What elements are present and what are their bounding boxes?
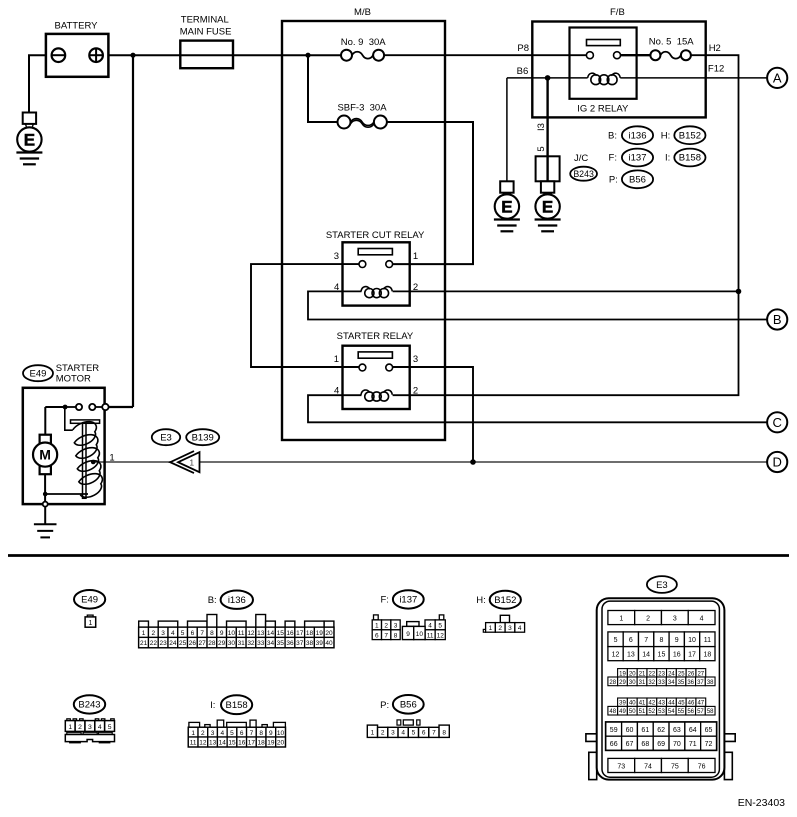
svg-text:4: 4 (401, 729, 405, 736)
svg-text:2: 2 (498, 625, 502, 632)
svg-text:3: 3 (334, 251, 339, 262)
svg-text:4: 4 (334, 386, 339, 397)
svg-text:B: B (773, 312, 782, 327)
svg-text:11: 11 (238, 630, 245, 637)
svg-text:51: 51 (639, 709, 646, 715)
svg-text:67: 67 (626, 741, 634, 748)
svg-text:1: 1 (489, 625, 493, 632)
svg-text:6: 6 (629, 637, 633, 644)
svg-text:14: 14 (219, 740, 227, 747)
svg-text:10: 10 (416, 631, 424, 638)
svg-text:48: 48 (609, 709, 616, 715)
svg-text:56: 56 (687, 709, 694, 715)
svg-text:2: 2 (78, 724, 82, 731)
svg-text:36: 36 (286, 640, 294, 647)
svg-text:43: 43 (658, 701, 665, 707)
svg-text:66: 66 (610, 741, 618, 748)
svg-text:44: 44 (668, 701, 675, 707)
svg-text:1: 1 (189, 457, 194, 467)
svg-text:B6: B6 (517, 66, 529, 77)
svg-text:30: 30 (228, 640, 236, 647)
svg-text:3: 3 (391, 729, 395, 736)
svg-text:13: 13 (257, 630, 265, 637)
svg-text:20: 20 (325, 630, 333, 637)
svg-text:2: 2 (152, 630, 156, 637)
svg-text:3: 3 (211, 730, 215, 737)
svg-text:64: 64 (689, 727, 697, 734)
svg-text:1: 1 (142, 630, 146, 637)
svg-text:14: 14 (642, 652, 650, 659)
svg-text:4: 4 (700, 615, 704, 622)
svg-text:25: 25 (678, 671, 685, 677)
svg-text:20: 20 (629, 671, 636, 677)
svg-text:1: 1 (371, 729, 375, 736)
svg-text:32: 32 (648, 680, 655, 686)
svg-text:26: 26 (688, 671, 695, 677)
svg-text:57: 57 (697, 709, 704, 715)
svg-text:3: 3 (673, 615, 677, 622)
svg-text:E49: E49 (81, 595, 98, 606)
svg-text:46: 46 (688, 701, 695, 707)
svg-text:20: 20 (277, 740, 285, 747)
svg-text:35: 35 (678, 680, 685, 686)
svg-text:17: 17 (688, 652, 696, 659)
svg-text:6: 6 (375, 632, 379, 639)
svg-text:B56: B56 (629, 175, 646, 186)
svg-text:29: 29 (619, 680, 626, 686)
svg-text:5: 5 (536, 146, 547, 151)
svg-text:B139: B139 (192, 432, 214, 443)
svg-text:17: 17 (296, 630, 304, 637)
svg-text:32: 32 (247, 640, 255, 647)
svg-text:4: 4 (98, 724, 102, 731)
svg-text:24: 24 (169, 640, 177, 647)
svg-text:6: 6 (422, 729, 426, 736)
svg-text:STARTER: STARTER (56, 363, 100, 374)
svg-text:1: 1 (375, 623, 379, 630)
svg-text:P:: P: (609, 175, 618, 186)
svg-text:33: 33 (257, 640, 265, 647)
svg-text:38: 38 (306, 640, 314, 647)
svg-text:36: 36 (687, 680, 694, 686)
svg-text:8: 8 (442, 729, 446, 736)
svg-text:27: 27 (199, 640, 207, 647)
svg-text:28: 28 (609, 680, 616, 686)
svg-text:M/B: M/B (354, 7, 371, 18)
svg-text:8: 8 (210, 630, 214, 637)
svg-text:12: 12 (247, 630, 255, 637)
svg-text:5: 5 (614, 637, 618, 644)
svg-text:31: 31 (238, 640, 246, 647)
svg-text:1: 1 (88, 620, 92, 627)
svg-text:STARTER RELAY: STARTER RELAY (337, 331, 414, 342)
svg-text:B243: B243 (573, 169, 594, 179)
svg-text:61: 61 (641, 727, 649, 734)
svg-text:2: 2 (646, 615, 650, 622)
svg-text:12: 12 (612, 652, 620, 659)
svg-text:55: 55 (678, 709, 685, 715)
svg-text:45: 45 (678, 701, 685, 707)
svg-text:34: 34 (267, 640, 275, 647)
svg-text:10: 10 (277, 730, 285, 737)
svg-text:5: 5 (108, 724, 112, 731)
svg-text:74: 74 (644, 763, 652, 770)
svg-text:B:: B: (608, 130, 617, 141)
svg-text:i137: i137 (399, 595, 417, 606)
svg-text:68: 68 (641, 741, 649, 748)
svg-text:F/B: F/B (610, 7, 625, 18)
svg-text:26: 26 (189, 640, 197, 647)
svg-text:2: 2 (381, 729, 385, 736)
svg-text:37: 37 (296, 640, 304, 647)
svg-text:7: 7 (384, 632, 388, 639)
svg-text:F12: F12 (708, 64, 724, 75)
svg-text:TERMINAL: TERMINAL (181, 15, 229, 26)
svg-text:A: A (773, 71, 782, 86)
svg-text:59: 59 (610, 727, 618, 734)
svg-text:F:: F: (609, 153, 617, 164)
svg-text:8: 8 (259, 730, 263, 737)
svg-text:10: 10 (228, 630, 236, 637)
svg-text:49: 49 (619, 709, 626, 715)
svg-text:3: 3 (88, 724, 92, 731)
svg-text:2: 2 (384, 623, 388, 630)
svg-text:SBF-3 30A: SBF-3 30A (337, 102, 387, 113)
svg-text:63: 63 (673, 727, 681, 734)
svg-text:7: 7 (644, 637, 648, 644)
svg-text:9: 9 (269, 730, 273, 737)
svg-text:31: 31 (639, 680, 646, 686)
svg-text:40: 40 (629, 701, 636, 707)
svg-text:23: 23 (159, 640, 167, 647)
svg-text:E49: E49 (30, 368, 47, 379)
svg-text:76: 76 (698, 763, 706, 770)
svg-text:M: M (39, 447, 51, 463)
svg-text:62: 62 (657, 727, 665, 734)
svg-text:53: 53 (658, 709, 665, 715)
svg-text:38: 38 (707, 680, 714, 686)
svg-text:15: 15 (277, 630, 285, 637)
svg-text:17: 17 (248, 740, 256, 747)
svg-text:27: 27 (697, 671, 704, 677)
svg-text:B152: B152 (494, 595, 516, 606)
svg-text:13: 13 (627, 652, 635, 659)
svg-text:24: 24 (668, 671, 675, 677)
svg-text:21: 21 (639, 671, 646, 677)
svg-text:6: 6 (240, 730, 244, 737)
svg-text:D: D (773, 455, 782, 470)
svg-text:B152: B152 (679, 130, 701, 141)
svg-text:50: 50 (629, 709, 636, 715)
svg-text:7: 7 (200, 630, 204, 637)
svg-text:9: 9 (675, 637, 679, 644)
svg-text:9: 9 (220, 630, 224, 637)
svg-text:1: 1 (68, 724, 72, 731)
svg-text:4: 4 (518, 625, 522, 632)
svg-text:8: 8 (394, 632, 398, 639)
svg-text:11: 11 (190, 740, 197, 747)
svg-text:41: 41 (639, 701, 646, 707)
svg-text:3: 3 (394, 623, 398, 630)
svg-text:21: 21 (140, 640, 148, 647)
svg-text:11: 11 (704, 637, 711, 644)
svg-text:B:: B: (208, 595, 217, 606)
svg-text:H:: H: (476, 595, 486, 606)
svg-text:15: 15 (658, 652, 666, 659)
svg-text:15: 15 (228, 740, 236, 747)
svg-text:34: 34 (668, 680, 675, 686)
svg-text:6: 6 (191, 630, 195, 637)
svg-text:I:: I: (665, 153, 670, 164)
svg-text:5: 5 (181, 630, 185, 637)
svg-text:J/C: J/C (574, 153, 588, 164)
svg-text:37: 37 (697, 680, 704, 686)
svg-text:i137: i137 (629, 153, 647, 164)
svg-text:47: 47 (697, 701, 704, 707)
svg-text:4: 4 (428, 623, 432, 630)
svg-text:1: 1 (109, 453, 114, 464)
svg-text:3: 3 (161, 630, 165, 637)
svg-text:12: 12 (199, 740, 207, 747)
svg-text:E: E (542, 197, 553, 216)
svg-text:12: 12 (437, 632, 445, 639)
svg-text:19: 19 (316, 630, 324, 637)
svg-text:58: 58 (707, 709, 714, 715)
svg-text:75: 75 (671, 763, 679, 770)
svg-text:60: 60 (626, 727, 634, 734)
svg-text:C: C (773, 415, 782, 430)
svg-text:E: E (501, 197, 512, 216)
svg-text:MOTOR: MOTOR (56, 373, 91, 384)
svg-text:40: 40 (325, 640, 333, 647)
svg-text:7: 7 (250, 730, 254, 737)
svg-text:E: E (24, 130, 35, 149)
svg-text:EN-23403: EN-23403 (738, 797, 785, 809)
svg-text:4: 4 (171, 630, 175, 637)
svg-text:35: 35 (277, 640, 285, 647)
svg-text:E3: E3 (160, 432, 172, 443)
svg-text:8: 8 (659, 637, 663, 644)
svg-text:F:: F: (380, 595, 388, 606)
svg-text:1: 1 (191, 730, 195, 737)
svg-text:65: 65 (705, 727, 713, 734)
svg-text:i136: i136 (228, 595, 246, 606)
svg-text:No. 5 15A: No. 5 15A (649, 37, 695, 48)
svg-text:E3: E3 (656, 580, 668, 591)
svg-text:H:: H: (661, 130, 671, 141)
svg-text:13: 13 (209, 740, 217, 747)
svg-text:2: 2 (413, 282, 418, 293)
svg-text:69: 69 (657, 741, 665, 748)
svg-text:B56: B56 (400, 700, 417, 711)
svg-text:3: 3 (413, 354, 418, 365)
svg-text:52: 52 (648, 709, 655, 715)
svg-text:19: 19 (619, 671, 626, 677)
svg-text:I3: I3 (536, 123, 547, 131)
svg-text:5: 5 (438, 623, 442, 630)
svg-text:70: 70 (673, 741, 681, 748)
svg-text:28: 28 (208, 640, 216, 647)
svg-text:IG 2 RELAY: IG 2 RELAY (577, 104, 629, 115)
svg-text:4: 4 (220, 730, 224, 737)
svg-text:P:: P: (380, 700, 389, 711)
svg-text:18: 18 (703, 652, 711, 659)
svg-text:STARTER CUT RELAY: STARTER CUT RELAY (326, 230, 425, 241)
svg-text:33: 33 (658, 680, 665, 686)
svg-text:1: 1 (413, 251, 418, 262)
svg-text:P8: P8 (517, 43, 529, 54)
svg-text:18: 18 (258, 740, 266, 747)
svg-text:1: 1 (334, 354, 339, 365)
svg-text:BATTERY: BATTERY (55, 20, 99, 31)
svg-text:25: 25 (179, 640, 187, 647)
svg-text:i136: i136 (629, 130, 647, 141)
svg-text:7: 7 (432, 729, 436, 736)
svg-text:22: 22 (150, 640, 158, 647)
svg-text:MAIN FUSE: MAIN FUSE (180, 27, 232, 38)
svg-text:5: 5 (412, 729, 416, 736)
svg-text:B158: B158 (679, 153, 701, 164)
svg-text:B243: B243 (78, 700, 100, 711)
svg-text:71: 71 (689, 741, 697, 748)
svg-text:22: 22 (649, 671, 656, 677)
svg-text:19: 19 (267, 740, 275, 747)
svg-text:29: 29 (218, 640, 226, 647)
svg-text:72: 72 (705, 741, 713, 748)
svg-text:73: 73 (617, 763, 625, 770)
svg-text:9: 9 (406, 631, 410, 638)
svg-text:54: 54 (668, 709, 675, 715)
svg-text:39: 39 (619, 701, 626, 707)
svg-text:2: 2 (201, 730, 205, 737)
svg-text:16: 16 (238, 740, 246, 747)
svg-text:42: 42 (649, 701, 656, 707)
svg-text:H2: H2 (709, 43, 721, 54)
svg-text:16: 16 (673, 652, 681, 659)
svg-text:39: 39 (316, 640, 324, 647)
svg-text:4: 4 (334, 282, 339, 293)
svg-text:1: 1 (619, 615, 623, 622)
svg-text:14: 14 (267, 630, 275, 637)
svg-text:23: 23 (658, 671, 665, 677)
svg-text:5: 5 (230, 730, 234, 737)
svg-text:16: 16 (286, 630, 294, 637)
svg-text:18: 18 (306, 630, 314, 637)
svg-text:B158: B158 (226, 700, 248, 711)
svg-text:I:: I: (210, 700, 215, 711)
svg-text:30: 30 (629, 680, 636, 686)
svg-text:2: 2 (413, 386, 418, 397)
svg-text:No. 9 30A: No. 9 30A (341, 37, 387, 48)
svg-text:10: 10 (688, 637, 696, 644)
svg-text:11: 11 (427, 632, 434, 639)
svg-text:3: 3 (508, 625, 512, 632)
